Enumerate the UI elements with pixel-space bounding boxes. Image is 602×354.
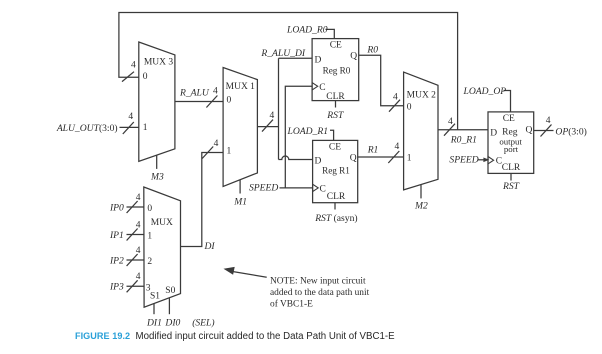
svg-text:DI1: DI1 <box>146 318 162 329</box>
svg-text:Reg R0: Reg R0 <box>323 66 351 76</box>
wire Reg R1 RST stub <box>334 203 336 210</box>
wire ALU_OUT(3:0) into MUX3 input 1 <box>120 126 139 128</box>
svg-text:RST: RST <box>502 181 520 192</box>
wire IP2 input <box>127 259 144 261</box>
svg-text:Q: Q <box>526 126 533 136</box>
svg-text:R0: R0 <box>366 45 378 56</box>
svg-text:2: 2 <box>147 257 152 267</box>
svg-text:C: C <box>319 83 325 93</box>
bus slash IP2 <box>127 254 138 266</box>
svg-text:MUX: MUX <box>151 218 173 228</box>
svg-text:4: 4 <box>448 117 453 127</box>
wire OP(3:0) from output register Q <box>534 130 554 132</box>
svg-text:RST: RST <box>326 110 344 121</box>
svg-text:of VBC1-E: of VBC1-E <box>270 299 313 310</box>
bus slash MUX3 input 0 <box>122 72 134 82</box>
wire R_ALU_DI into Reg R0 D <box>279 57 313 59</box>
register R0 body <box>312 39 359 101</box>
clock triangle output register C <box>488 157 494 164</box>
svg-text:DI: DI <box>204 241 216 252</box>
caption FIGURE 19.2 <box>75 331 395 342</box>
svg-text:NOTE: New input circuit: NOTE: New input circuit <box>270 277 366 287</box>
svg-text:DI0: DI0 <box>164 318 180 329</box>
wire M2 select stub <box>420 185 422 199</box>
svg-text:MUX 2: MUX 2 <box>407 90 437 100</box>
svg-text:CE: CE <box>330 41 342 51</box>
svg-text:CLR: CLR <box>326 92 345 102</box>
svg-text:1: 1 <box>407 154 412 164</box>
wire SPEED into output register C <box>478 159 485 161</box>
wire into Reg R1 D with hop over clock rail <box>279 156 313 160</box>
wire R0_R1 from MUX2 output to output register D <box>438 129 488 131</box>
arrowhead NOTE pointer <box>224 267 235 275</box>
bus slash OP(3:0) <box>541 125 552 137</box>
svg-text:R_ALU: R_ALU <box>179 88 210 99</box>
svg-text:1: 1 <box>227 147 232 157</box>
bus slash MUX1 output <box>262 120 273 132</box>
svg-text:CE: CE <box>503 114 515 124</box>
wire M1 select stub <box>239 180 241 194</box>
svg-text:C: C <box>320 185 326 195</box>
svg-text:4: 4 <box>546 116 551 126</box>
wire MUX1 output to node R_ALU_DI vertical rail <box>257 126 278 128</box>
svg-text:RST (asyn): RST (asyn) <box>314 213 357 224</box>
svg-text:MUX 1: MUX 1 <box>226 82 256 92</box>
svg-text:D: D <box>490 128 497 138</box>
svg-text:MUX 3: MUX 3 <box>144 58 174 68</box>
svg-text:SPEED: SPEED <box>449 155 478 166</box>
svg-text:M3: M3 <box>150 171 164 182</box>
svg-text:OP(3:0): OP(3:0) <box>555 127 586 138</box>
wire LOAD_R0 to Reg R0 CE <box>326 29 335 38</box>
svg-text:4: 4 <box>136 220 141 230</box>
bus slash IP1 <box>127 229 138 241</box>
svg-text:(SEL): (SEL) <box>192 318 214 329</box>
bus slash IP0 <box>127 201 138 213</box>
bus slash R_ALU <box>206 96 217 108</box>
svg-text:0: 0 <box>227 96 232 106</box>
svg-text:R0_R1: R0_R1 <box>450 134 477 145</box>
wire clock rail from Reg R0 C down to SPEED line <box>285 86 312 188</box>
register output port body <box>488 112 534 173</box>
svg-text:4: 4 <box>136 246 141 256</box>
bus slash DI <box>202 147 213 159</box>
mux M1 body <box>223 68 257 187</box>
svg-text:D: D <box>315 56 322 66</box>
bus slash MUX3 input 1 <box>123 122 134 134</box>
wire output register RST stub <box>510 173 512 180</box>
wire IP0 input <box>127 206 144 208</box>
arrowhead SPEED into output register <box>483 158 489 163</box>
svg-text:CE: CE <box>329 142 341 152</box>
svg-text:4: 4 <box>213 86 218 96</box>
wire feedback from node R0_R1 over the top to MUX3 input 0 <box>119 13 458 130</box>
svg-text:IP0: IP0 <box>109 202 124 213</box>
wire S1 select stub <box>153 304 155 315</box>
svg-text:ALU_OUT(3:0): ALU_OUT(3:0) <box>56 123 118 134</box>
clock triangle Reg R0 C <box>312 83 318 90</box>
svg-text:S0: S0 <box>165 286 175 296</box>
svg-text:LOAD_R1: LOAD_R1 <box>287 126 329 137</box>
svg-text:4: 4 <box>136 272 141 282</box>
wire IP3 input <box>127 285 144 287</box>
svg-text:M1: M1 <box>233 197 247 208</box>
svg-text:0: 0 <box>407 103 412 113</box>
wire R0 from Reg R0 Q to MUX2 input 0 <box>359 55 404 105</box>
wire LOAD_OP to output register CE <box>504 91 511 112</box>
wire LOAD_R1 to Reg R1 CE <box>330 130 334 140</box>
svg-text:4: 4 <box>214 139 219 149</box>
svg-text:added to the data path unit: added to the data path unit <box>270 288 370 298</box>
svg-text:4: 4 <box>136 193 141 203</box>
wire S0 select stub <box>168 298 170 314</box>
bus slash IP3 <box>127 280 138 292</box>
svg-text:D: D <box>315 156 322 166</box>
wire R_ALU_DI vertical rail <box>278 58 280 159</box>
svg-text:CLR: CLR <box>327 192 346 202</box>
svg-text:4: 4 <box>393 92 398 102</box>
svg-text:Q: Q <box>350 153 357 163</box>
svg-text:R1: R1 <box>367 144 379 155</box>
svg-text:4: 4 <box>395 142 400 152</box>
wire SPEED to Reg R1 C <box>280 187 313 189</box>
clock triangle Reg R1 C <box>313 184 319 191</box>
bus slash R0_R1 <box>444 124 455 136</box>
svg-text:Reg R1: Reg R1 <box>322 166 350 176</box>
wire DI from input MUX output up to MUX1 input 1 <box>181 153 224 247</box>
wire R_ALU from MUX3 output to MUX1 input 0 <box>175 101 223 103</box>
svg-text:IP3: IP3 <box>109 282 124 293</box>
svg-text:LOAD_OP: LOAD_OP <box>463 86 507 97</box>
bus slash MUX2 input 1 <box>388 151 399 163</box>
svg-text:R_ALU_DI: R_ALU_DI <box>260 48 306 59</box>
svg-text:4: 4 <box>131 61 136 71</box>
svg-text:IP1: IP1 <box>109 230 124 241</box>
wire Reg R0 RST stub <box>335 101 337 108</box>
mux M2 body <box>404 72 438 190</box>
mux input MUX body <box>144 187 181 307</box>
svg-text:LOAD_R0: LOAD_R0 <box>286 24 328 35</box>
svg-text:1: 1 <box>147 232 152 242</box>
bus slash MUX2 input 0 <box>389 100 400 112</box>
svg-text:S1: S1 <box>150 292 160 302</box>
svg-text:IP2: IP2 <box>109 255 124 266</box>
register R1 body <box>313 140 358 202</box>
wire R1 from Reg R1 Q to MUX2 input 1 <box>358 156 404 158</box>
svg-text:M2: M2 <box>414 200 428 211</box>
svg-text:SPEED: SPEED <box>249 183 278 194</box>
svg-text:1: 1 <box>143 123 148 133</box>
svg-text:4: 4 <box>128 112 133 122</box>
arrow NOTE pointer line <box>231 271 267 277</box>
wire M3 select stub <box>156 155 158 169</box>
svg-text:0: 0 <box>147 204 152 214</box>
svg-text:4: 4 <box>270 111 275 121</box>
mux M3 body <box>139 42 175 161</box>
wire IP1 input <box>127 234 144 236</box>
svg-text:0: 0 <box>143 72 148 82</box>
svg-text:CLR: CLR <box>502 163 521 173</box>
svg-text:Q: Q <box>350 52 357 62</box>
svg-text:port: port <box>504 144 519 154</box>
